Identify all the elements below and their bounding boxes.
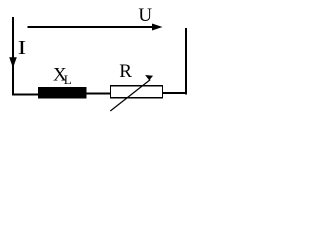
- variable-resistor diagonal adjustment arrow shaft: [110, 80, 150, 111]
- current arrow I (arrowhead pointing down on left wire): [9, 57, 17, 68]
- wire: left vertical conductor: [12, 17, 14, 96]
- resistor R body (variable resistor box): [111, 86, 163, 98]
- inductive reactance XL (filled black box): [38, 87, 87, 99]
- svg-text:R: R: [119, 61, 132, 82]
- svg-text:I: I: [18, 38, 27, 59]
- svg-text:L: L: [64, 72, 72, 87]
- arrowhead of diagonal adjustment arrow: [145, 75, 153, 80]
- svg-text:U: U: [138, 5, 152, 26]
- arrowhead of voltage arrow U (pointing right): [152, 24, 163, 31]
- wire: top voltage arrow shaft: [28, 26, 155, 28]
- wire: bottom middle segment between XL and R: [86, 93, 111, 95]
- wire: bottom left segment: [12, 94, 39, 96]
- wire: right vertical conductor: [185, 28, 187, 94]
- wire: bottom right segment: [163, 92, 186, 94]
- circuit schematic: AC source with voltage arrow U, current I, inductive reactance XL and variable resistor R: [0, 0, 202, 113]
